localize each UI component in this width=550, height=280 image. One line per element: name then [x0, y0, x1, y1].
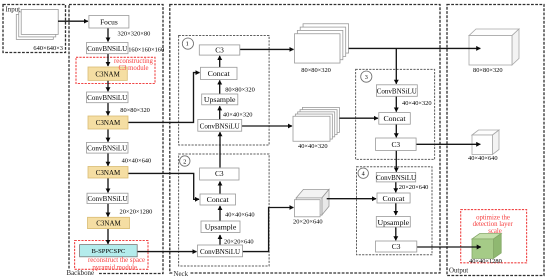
- svg-text:ConvBNSiLU: ConvBNSiLU: [376, 174, 416, 182]
- svg-text:Concat: Concat: [207, 195, 230, 204]
- svg-text:C3NAM: C3NAM: [96, 220, 121, 228]
- svg-text:Neck: Neck: [174, 271, 189, 278]
- svg-text:80×80×320: 80×80×320: [473, 67, 503, 74]
- svg-text:ConvBNSiLU: ConvBNSiLU: [87, 144, 127, 152]
- svg-text:40×40×320: 40×40×320: [402, 100, 432, 107]
- svg-text:640×640×3: 640×640×3: [33, 45, 63, 52]
- svg-text:Output: Output: [449, 268, 468, 275]
- svg-text:Concat: Concat: [383, 114, 406, 123]
- svg-text:Concat: Concat: [208, 69, 231, 78]
- svg-text:Concat: Concat: [382, 194, 405, 203]
- svg-text:40×40×640: 40×40×640: [225, 212, 255, 219]
- svg-text:reconstructing: reconstructing: [114, 58, 153, 65]
- svg-text:20×20×1280: 20×20×1280: [120, 209, 153, 216]
- svg-text:pyramid module: pyramid module: [92, 265, 137, 272]
- svg-text:40×40×320: 40×40×320: [223, 112, 253, 119]
- svg-text:ConvBNSiLU: ConvBNSiLU: [87, 195, 127, 203]
- svg-text:320×320×80: 320×320×80: [118, 30, 151, 37]
- svg-text:Upsample: Upsample: [205, 223, 237, 232]
- svg-text:reconstruct the space: reconstruct the space: [88, 257, 145, 264]
- svg-text:ConvBNSiLU: ConvBNSiLU: [87, 45, 127, 53]
- svg-text:4: 4: [362, 171, 365, 178]
- svg-text:1: 1: [186, 40, 189, 47]
- svg-text:C3: C3: [391, 140, 400, 149]
- svg-text:3: 3: [365, 74, 368, 81]
- svg-text:C3: C3: [215, 45, 224, 54]
- svg-text:20×20×640: 20×20×640: [224, 238, 254, 245]
- svg-text:Focus: Focus: [100, 17, 118, 26]
- svg-text:2: 2: [183, 158, 186, 165]
- svg-text:ConvBNSiLU: ConvBNSiLU: [87, 94, 127, 102]
- svg-text:scale: scale: [488, 228, 502, 235]
- svg-text:80×80×320: 80×80×320: [301, 67, 331, 74]
- svg-text:C3: C3: [215, 169, 224, 178]
- svg-text:ConvBNSiLU: ConvBNSiLU: [377, 88, 417, 96]
- svg-text:Input: Input: [6, 7, 21, 14]
- svg-text:Upsample: Upsample: [377, 218, 409, 227]
- svg-text:C3: C3: [392, 242, 401, 251]
- svg-text:C3 module: C3 module: [118, 65, 148, 72]
- svg-text:20×20×640: 20×20×640: [399, 184, 429, 191]
- svg-text:C3NAM: C3NAM: [95, 71, 120, 79]
- svg-text:40×40×640: 40×40×640: [122, 158, 152, 165]
- svg-text:C3NAM: C3NAM: [96, 119, 121, 127]
- svg-text:80×80×320: 80×80×320: [225, 86, 255, 93]
- svg-text:Upsample: Upsample: [204, 95, 236, 104]
- svg-text:20×20×640: 20×20×640: [293, 218, 323, 225]
- svg-text:160×160×160: 160×160×160: [128, 47, 164, 54]
- svg-text:Backbone: Backbone: [67, 270, 95, 277]
- svg-text:B-SPPCSPC: B-SPPCSPC: [92, 248, 126, 255]
- svg-text:ConvBNSiLU: ConvBNSiLU: [200, 248, 240, 256]
- svg-text:ConvBNSiLU: ConvBNSiLU: [200, 123, 240, 131]
- svg-text:40×40×320: 40×40×320: [298, 143, 328, 150]
- svg-text:40×40×640: 40×40×640: [468, 155, 498, 162]
- svg-text:80×80×320: 80×80×320: [120, 107, 150, 114]
- svg-text:C3NAM: C3NAM: [96, 169, 121, 177]
- svg-text:40×40×1280: 40×40×1280: [469, 258, 502, 265]
